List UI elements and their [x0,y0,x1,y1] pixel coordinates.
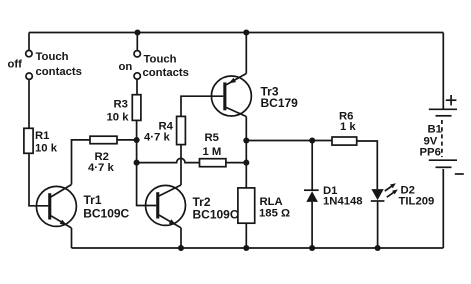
svg-text:R1: R1 [35,130,49,142]
resistor R5 [200,159,226,167]
relay coil RLA [238,188,255,223]
svg-text:1 M: 1 M [203,146,222,158]
wire R5 right to node [226,162,246,164]
svg-text:D2: D2 [401,184,415,196]
svg-text:BC179: BC179 [261,96,299,110]
transistor Tr2 [146,185,186,228]
wire top supply rail [29,32,443,34]
svg-text:1 k: 1 k [340,121,356,133]
touch contact on (upper) [134,51,140,57]
node RLA bottom on rail [243,245,249,251]
wire node down to relay RLA [245,141,247,188]
wire R3 bottom down to Tr2 base [137,120,157,205]
svg-text:on: on [119,61,133,73]
wire Tr2 emitter to bottom rail [180,228,182,248]
wire rail to on contact [136,33,138,51]
node R2/R3 junction [134,137,140,143]
transistor Tr1 [36,185,76,229]
transistor Tr3 [211,74,251,117]
label R1 value [35,130,58,155]
wire base net to R5 with hop over Tr2 collector [137,158,200,162]
svg-text:4·7 k: 4·7 k [144,132,170,144]
svg-text:Touch: Touch [144,54,177,66]
wire RLA to bottom rail [245,223,247,248]
resistor R3 [132,95,141,121]
wire bottom supply rail [72,247,444,249]
node D1 top junction [309,137,315,143]
wire D2 to bottom rail [377,202,379,248]
resistor R2 [90,136,117,144]
svg-text:BC109C: BC109C [193,207,239,221]
wire R2 right to node [117,139,137,141]
wire Tr1 emitter to bottom rail [71,228,73,248]
svg-text:TIL209: TIL209 [399,196,435,208]
label R5 value [203,132,222,158]
node R5 right junction [243,160,249,166]
node D2 bottom on rail [375,245,381,251]
label RLA value [259,196,290,219]
label Tr2 BC109C [193,195,239,221]
wire off contact to R1 [28,79,30,128]
label battery minus [455,173,464,175]
label Touch contacts (left) [36,51,82,78]
node junction on top rail above on contacts [134,29,140,35]
label R4 value [144,121,174,144]
wire R4 top to Tr3 base [181,96,223,116]
LED D2 [371,183,398,201]
wire Tr1 collector up to R2 left [72,140,91,185]
label D1 1N4148 [323,185,363,208]
node Tr2 emitter on rail [178,245,184,251]
wire R6 right down to D2 [357,141,378,189]
svg-text:RLA: RLA [260,196,283,208]
wire battery to bottom rail [442,169,444,248]
node junction on top rail above Tr3 [243,29,249,35]
battery B1 [429,109,457,167]
node base net junction [134,160,140,166]
wire collector net to R6 [246,140,332,142]
svg-text:Touch: Touch [36,51,69,63]
svg-text:contacts: contacts [143,67,189,79]
wire node down to D1 [311,141,313,191]
svg-text:contacts: contacts [36,66,82,78]
wire D1 to bottom rail [311,202,313,248]
wire on contact to R3 [136,79,138,95]
svg-text:1N4148: 1N4148 [323,196,363,208]
wire rail to Tr3 emitter [245,33,247,74]
svg-text:10 k: 10 k [35,142,58,154]
svg-text:10 k: 10 k [107,112,130,124]
resistor R6 [332,137,357,145]
label off [8,59,23,71]
node Tr3 collector junction [243,137,249,143]
svg-text:off: off [8,59,23,71]
svg-text:R5: R5 [205,132,219,144]
label R6 value [339,111,356,134]
svg-text:R3: R3 [114,98,128,110]
label R3 value [107,98,130,123]
touch contact off (lower) [26,73,32,79]
touch contact on (lower) [134,73,140,79]
wire Tr3 collector down to node [245,117,247,141]
wire left drop from rail to off contact [28,33,30,51]
svg-text:B1: B1 [428,124,442,136]
svg-text:9V: 9V [424,135,438,147]
resistor R1 [24,128,33,153]
label battery plus [446,95,457,105]
label Tr1 BC109C [83,193,129,220]
label on [119,61,133,73]
svg-text:185 Ω: 185 Ω [259,207,290,219]
label R2 value [88,151,114,174]
svg-text:PP6: PP6 [420,147,441,159]
label Touch contacts (middle) [143,54,189,80]
resistor R4 [177,116,186,144]
svg-text:4·7 k: 4·7 k [88,162,114,174]
label Tr3 BC179 [261,84,299,110]
diode D1 [304,190,319,202]
wire right side rail to battery [442,33,444,110]
node D1 bottom on rail [309,245,315,251]
label B1 9V PP6 [420,124,442,159]
wire R4 bottom to Tr2 collector [180,145,182,185]
svg-text:Tr1: Tr1 [84,193,102,207]
svg-text:BC109C: BC109C [83,207,129,221]
label D2 TIL209 [399,184,435,207]
wire R1 to Tr1 base [29,153,48,206]
touch contact off (upper) [26,50,32,56]
